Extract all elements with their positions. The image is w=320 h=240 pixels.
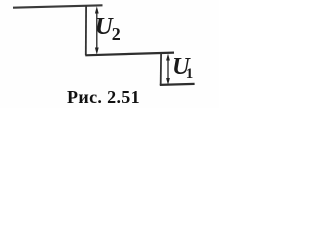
- caption Рис. 2.51: [67, 88, 140, 106]
- wire bottom level: [160, 84, 195, 85]
- wire step-2 vertical edge: [160, 53, 162, 85]
- label U1: [172, 55, 193, 82]
- wire second level: [85, 53, 174, 56]
- dimension arrow U2 (double-headed, measures upper step height): [95, 6, 99, 55]
- dimension arrow U1 (double-headed, measures lower step height): [166, 54, 170, 85]
- label U2: [95, 15, 121, 43]
- wire step-1 vertical edge: [85, 5, 87, 55]
- wire top level (upper voltage step): [13, 5, 103, 7]
